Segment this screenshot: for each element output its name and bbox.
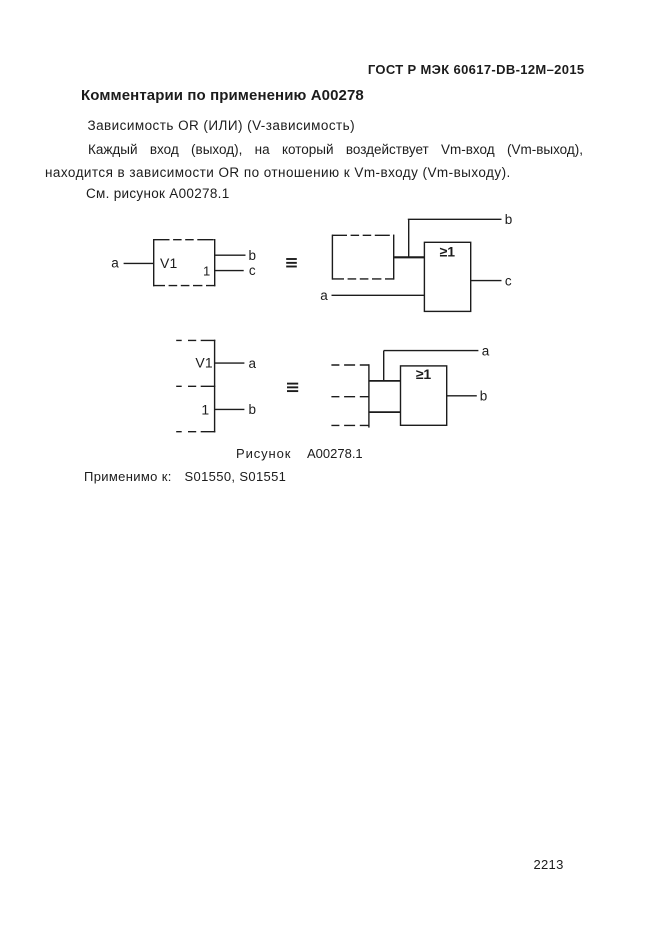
body line 1 — [88, 118, 356, 134]
common element fragment CC2 (abbreviated, dashed left rows) — [331, 364, 370, 427]
equivalence symbol (row 1) — [286, 259, 297, 267]
common control block CC1 (abbreviated, dashed top/bottom) — [332, 235, 394, 280]
wire a (horizontal) — [384, 350, 479, 352]
applicability line — [84, 469, 172, 485]
element U3: array element with common control V1 (abbreviated left side) — [175, 340, 215, 433]
wire to a (vertical riser) — [383, 351, 385, 381]
svg-text:b: b — [249, 248, 257, 263]
svg-text:1: 1 — [203, 263, 210, 278]
wire a (input to U2) — [332, 294, 425, 296]
svg-text:a: a — [320, 288, 328, 303]
wire b (output of U4) — [447, 395, 477, 397]
svg-text:V1: V1 — [160, 255, 177, 271]
svg-text:a: a — [249, 356, 257, 371]
wire a (input to U1) — [124, 262, 154, 264]
wire c (output of U2) — [471, 280, 502, 282]
wire b (output of U1) — [215, 254, 246, 256]
svg-text:b: b — [480, 389, 488, 404]
svg-text:a: a — [111, 255, 119, 270]
body line 4 — [86, 186, 230, 202]
svg-text:c: c — [249, 263, 256, 278]
element U1: OR element with common control block V1 (abbreviated, dashed top/bottom) — [153, 239, 215, 286]
running head — [368, 62, 585, 78]
body line 2 (justified) — [88, 142, 583, 158]
svg-text:1: 1 — [201, 401, 209, 417]
wire CC2 to U4 (lower) — [369, 411, 401, 413]
OR gate U4 — [401, 366, 447, 425]
svg-text:b: b — [505, 212, 513, 227]
wire CC1 to U2 — [394, 256, 424, 258]
svg-text:≥1: ≥1 — [440, 244, 456, 260]
figure caption — [236, 446, 291, 462]
equivalence symbol (row 2) — [287, 384, 298, 392]
section heading — [81, 88, 364, 104]
svg-text:c: c — [505, 273, 512, 288]
svg-text:V1: V1 — [195, 355, 212, 371]
svg-text:b: b — [249, 402, 257, 417]
wire a (output of U3) — [215, 362, 245, 364]
OR gate U2 — [424, 242, 470, 311]
wire b (horizontal) — [408, 218, 502, 220]
page number — [534, 857, 564, 873]
wire to b (vertical riser) — [408, 219, 410, 257]
body line 3 — [45, 165, 511, 181]
svg-text:≥1: ≥1 — [416, 366, 432, 382]
wire c (output of U1) — [215, 270, 244, 272]
wire CC2 to U4 (upper) — [369, 380, 401, 382]
wire b (output of U3) — [215, 408, 245, 410]
svg-text:a: a — [482, 343, 490, 358]
